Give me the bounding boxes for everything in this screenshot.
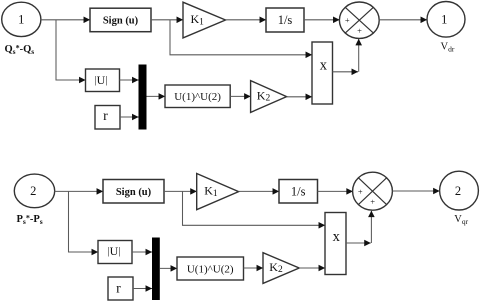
wire: source 2 to Sign(u) xyxy=(55,190,104,192)
block Sign(u) row2 xyxy=(103,180,164,204)
product x row1 xyxy=(312,42,333,104)
wire: sum to output 2 xyxy=(392,190,439,192)
gain K2 row1 xyxy=(251,81,287,113)
svg-text:1: 1 xyxy=(441,13,447,27)
wire: product x to corner row1 xyxy=(333,71,359,73)
svg-text:+: + xyxy=(345,15,350,25)
integrator 1/s row2 xyxy=(279,180,318,204)
wire: K2 to product x row1 xyxy=(287,96,312,98)
wire: branch down to product x input 1 xyxy=(170,20,312,55)
wire: product x to corner row2 xyxy=(346,242,371,244)
wire: U(1)^U(2) to K2 row2 xyxy=(244,267,264,269)
wire: corner up to sum bottom row1 xyxy=(358,39,360,72)
wire: branch down to product x input 1 row2 xyxy=(183,191,326,225)
sum junction row2 xyxy=(353,172,393,210)
wire: source 1 to Sign(u) xyxy=(41,19,90,21)
svg-text:|U|: |U| xyxy=(95,73,108,87)
svg-text:r: r xyxy=(103,109,108,124)
svg-text:Qs*-Qs: Qs*-Qs xyxy=(5,44,35,57)
svg-text:2: 2 xyxy=(455,184,461,198)
output port circle 1 xyxy=(427,2,465,38)
block U(1)^U(2) row1 xyxy=(165,85,230,108)
sum junction row1 xyxy=(339,2,379,38)
wire: K1 to 1/s row2 xyxy=(239,190,279,192)
block |U| row1 xyxy=(86,69,120,92)
wire: K2 to product x row2 xyxy=(299,267,325,269)
gain K1 xyxy=(183,2,226,38)
wire: mux to U(1)^U(2) row1 xyxy=(147,95,166,97)
gain K2 row2 xyxy=(263,253,299,284)
input port circle 1 xyxy=(2,2,41,36)
wire: r to mux row1 xyxy=(120,116,139,118)
svg-text:1/s: 1/s xyxy=(278,13,293,27)
wire: |U| to mux row2 xyxy=(132,251,152,253)
wire: corner up to sum bottom row2 xyxy=(370,211,372,243)
svg-text:1/s: 1/s xyxy=(291,184,306,198)
wire: 1/s to sum row2 xyxy=(318,190,353,192)
svg-text:Ps*-Ps: Ps*-Ps xyxy=(17,214,43,227)
wire: Sign(u) to K1 xyxy=(151,19,183,21)
svg-text:1: 1 xyxy=(18,13,24,27)
output port circle 2 xyxy=(440,171,479,210)
svg-text:Sign (u): Sign (u) xyxy=(116,187,152,198)
wire: |U| to mux row1 xyxy=(120,79,139,81)
wire: sum to output 1 xyxy=(379,19,427,21)
gain K1 row2 xyxy=(197,174,239,210)
svg-text:x: x xyxy=(333,229,341,245)
wire: r to mux row2 xyxy=(133,288,152,290)
svg-text:U(1)^U(2): U(1)^U(2) xyxy=(187,263,234,275)
mux bar row1 xyxy=(139,65,147,130)
svg-text:+: + xyxy=(357,26,362,36)
wire: Sign(u) to K1 row2 xyxy=(164,190,197,192)
svg-text:U(1)^U(2): U(1)^U(2) xyxy=(174,91,221,103)
wire: mux to U(1)^U(2) row2 xyxy=(160,267,177,269)
svg-text:Sign (u): Sign (u) xyxy=(103,16,139,27)
product x row2 xyxy=(325,213,346,275)
block r row1 xyxy=(95,106,120,130)
wire: branch down to |U| xyxy=(56,20,86,80)
block |U| row2 xyxy=(98,241,132,264)
wire: branch down to |U| row2 xyxy=(69,191,99,252)
wire: K1 to 1/s xyxy=(226,19,267,21)
svg-text:r: r xyxy=(116,281,121,296)
block U(1)^U(2) row2 xyxy=(177,257,244,280)
mux bar row2 xyxy=(152,238,160,301)
svg-text:2: 2 xyxy=(30,184,36,198)
svg-text:+: + xyxy=(358,187,363,197)
block Sign(u) xyxy=(90,8,151,32)
wire: 1/s to sum xyxy=(304,19,340,21)
svg-text:x: x xyxy=(320,57,328,73)
block r row2 xyxy=(108,277,133,300)
integrator 1/s xyxy=(266,8,304,32)
svg-text:|U|: |U| xyxy=(108,244,121,258)
input port circle 2 xyxy=(14,174,54,208)
svg-text:+: + xyxy=(370,197,375,207)
wire: U(1)^U(2) to K2 row1 xyxy=(230,95,250,97)
